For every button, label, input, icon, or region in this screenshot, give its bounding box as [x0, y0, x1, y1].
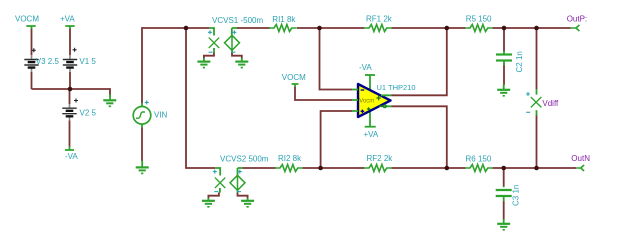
- resistor RF2 2k: [364, 154, 393, 172]
- node +VA label: [60, 15, 75, 29]
- svg-text:VCVS1 -500m: VCVS1 -500m: [212, 16, 263, 25]
- ground below VIN: [136, 161, 149, 174]
- battery V3 2.5: [24, 48, 59, 71]
- wire supply rail: [32, 89, 111, 95]
- wire vertical VIN node to bottom rail: [186, 28, 215, 168]
- svg-text:V2 5: V2 5: [80, 108, 97, 117]
- meter Vdiff: [526, 89, 559, 116]
- wire C2 branch: [503, 28, 505, 85]
- svg-text:+VA: +VA: [60, 15, 75, 24]
- node -VA label bottom: [65, 147, 78, 161]
- svg-text:VOCM: VOCM: [282, 73, 306, 82]
- svg-text:C2 1n: C2 1n: [515, 51, 524, 72]
- node junction RF2 right: [445, 166, 450, 171]
- wire VCVS1 output to RI1: [237, 27, 270, 29]
- source VIN: [133, 100, 167, 127]
- svg-text:R5 150: R5 150: [466, 15, 492, 24]
- wire Vdiff bottom branch: [536, 115, 538, 168]
- wire inverting input: [320, 28, 353, 90]
- node -VA label at op-amp: [359, 63, 375, 75]
- resistor RI2 8k: [275, 154, 303, 171]
- vcvs VCVS2 input port X: [213, 168, 226, 193]
- node +VA label at op-amp: [364, 127, 379, 139]
- ground VCVS2 X: [202, 198, 215, 207]
- svg-text:RF2 2k: RF2 2k: [367, 154, 394, 163]
- resistor RF1 2k: [364, 15, 393, 32]
- capacitor C2 1n: [496, 51, 524, 73]
- ground C3: [497, 219, 510, 230]
- capacitor C3 1n: [496, 185, 521, 206]
- wire C3 branch: [503, 168, 505, 220]
- wire V2 column: [69, 89, 71, 147]
- svg-text:-VA: -VA: [65, 152, 78, 161]
- ground VCVS1 diamond: [235, 58, 248, 68]
- svg-text:U1 THP210: U1 THP210: [377, 83, 416, 92]
- svg-text:V3 2.5: V3 2.5: [36, 57, 60, 66]
- battery V1 5: [63, 48, 97, 72]
- svg-text:VOCM: VOCM: [15, 15, 39, 24]
- wire VIN to top rail: [142, 28, 209, 103]
- svg-text:C3 1n: C3 1n: [512, 185, 521, 206]
- vcvs VCVS1 input port X: [208, 28, 219, 53]
- wire VCVS1 diamond to ground: [232, 53, 242, 59]
- wire VIN to ground: [141, 127, 143, 161]
- wire lower output feedback: [392, 106, 447, 168]
- pin OutP: [567, 15, 587, 31]
- node junction Vdiff top: [534, 26, 539, 31]
- ground VCVS1 X: [197, 58, 210, 68]
- svg-text:R6 150: R6 150: [466, 155, 492, 164]
- svg-text:Vdiff: Vdiff: [542, 99, 559, 108]
- svg-text:RF1 2k: RF1 2k: [366, 15, 393, 24]
- wire RF1 to R5: [392, 27, 466, 29]
- svg-text:+VA: +VA: [364, 130, 379, 139]
- node junction RF1 right: [445, 26, 450, 31]
- wire VCVS2 X to ground: [208, 193, 219, 199]
- svg-text:RI1 8k: RI1 8k: [272, 15, 296, 24]
- ground VCVS2 diamond: [241, 198, 254, 207]
- resistor R6 150: [465, 155, 493, 172]
- svg-text:OutP:: OutP:: [567, 15, 587, 24]
- svg-text:OutN: OutN: [571, 154, 590, 163]
- wire R5 to OutP: [493, 27, 571, 29]
- node junction Vdiff bottom: [534, 166, 539, 171]
- svg-text:VIN: VIN: [154, 110, 168, 119]
- svg-text:Vocm: Vocm: [359, 98, 374, 104]
- wire RI1 to RF1: [297, 27, 365, 29]
- svg-text:-VA: -VA: [359, 63, 372, 72]
- svg-text:V1 5: V1 5: [79, 57, 96, 66]
- ground supply rail: [103, 95, 116, 107]
- wire Vdiff top branch: [536, 28, 538, 89]
- wire RF2 to R6: [392, 167, 466, 169]
- svg-text:VCVS2 500m: VCVS2 500m: [220, 155, 269, 164]
- wire V1 column: [69, 29, 71, 90]
- node junction V1 bottom: [68, 87, 73, 92]
- vcvs VCVS2 output diamond: [230, 168, 245, 193]
- svg-text:RI2 8k: RI2 8k: [278, 154, 302, 163]
- ground C2: [497, 85, 510, 96]
- pin OutN: [571, 154, 590, 171]
- wire VCVS2 diamond to ground: [238, 193, 248, 199]
- vcvs VCVS1 output diamond: [225, 28, 240, 53]
- battery V2 5: [62, 99, 96, 121]
- node junction C2 top: [502, 26, 507, 31]
- wire VCVS1 X to ground: [204, 53, 214, 59]
- op-amp U1 THP210: [352, 75, 416, 127]
- node junction RI2 out: [318, 166, 323, 171]
- node junction VIN top: [184, 26, 189, 31]
- node VOCM label top-left: [15, 15, 39, 29]
- resistor RI1 8k: [269, 15, 297, 32]
- wire VCVS2 output to RI2: [242, 167, 275, 169]
- node junction C3 top: [501, 166, 506, 171]
- wire R6 to OutN: [493, 167, 577, 169]
- node VOCM label at op-amp: [282, 73, 306, 87]
- wire RI2 to RF2: [303, 167, 365, 169]
- wire upper output feedback: [392, 28, 447, 95]
- node junction RI1 out: [317, 26, 322, 31]
- wire vocm input: [295, 87, 352, 101]
- resistor R5 150: [465, 15, 493, 32]
- wire noninverting input: [321, 111, 352, 168]
- wire V3 column: [31, 29, 33, 90]
